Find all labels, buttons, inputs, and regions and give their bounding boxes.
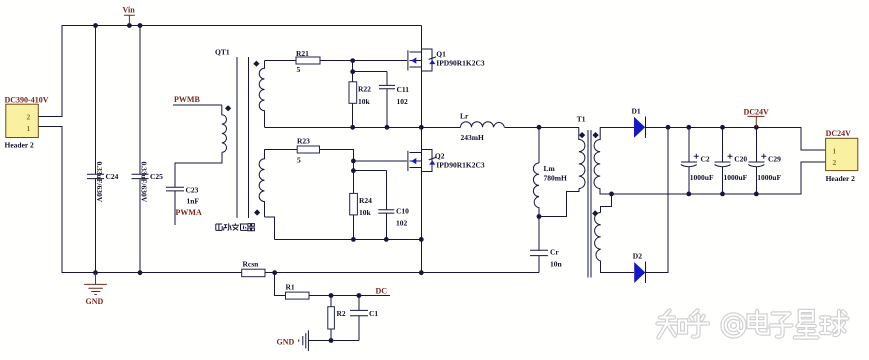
wire: PWMB net stub to QT1 primary [173,104,222,106]
svg-text:R23: R23 [297,137,310,146]
svg-text:1000uF: 1000uF [690,173,714,182]
wire: Lm top connection / Cr series leg [538,127,540,272]
wire: R2 branch [330,296,332,341]
svg-text:C24: C24 [106,172,119,181]
svg-text:1000uF: 1000uF [757,173,781,182]
junction: gnd rail / C29 [754,192,759,197]
svg-text:PWMA: PWMA [176,208,202,217]
wire: C2 branch [688,127,690,194]
svg-text:102: 102 [396,219,408,228]
wire: C25 branch across bus [139,26,141,273]
resistor Rcsn (current sense) [242,260,265,277]
wire: C20 branch [722,127,724,194]
wire: R24 bottom to Q2 source row [352,215,354,240]
capacitor C1 [350,309,378,318]
QT1 primary winding [222,105,227,152]
wire: QT1 primary bottom to C23 and PWMA stub [175,152,222,225]
junction: Q2 source row / C10 [384,237,389,242]
svg-text:10k: 10k [358,97,371,106]
diode D2 (output rectifier) [633,252,646,284]
junction: R1 out / C1 [357,293,362,298]
wire: half-bridge mid node row (QT1 sec return / Q1 source / to Lr) [265,126,579,128]
wire: bottom GND return under R2/C1 [308,340,359,342]
wire: R22 bottom to source row [352,103,354,127]
svg-text:1000uF: 1000uF [724,173,748,182]
svg-text:Header 2: Header 2 [5,141,34,150]
QT1 bottom secondary polarity dot [254,209,260,215]
svg-text:R24: R24 [359,196,372,205]
svg-text:Q2: Q2 [435,152,445,161]
svg-text:C10: C10 [396,207,409,216]
ground GND (signal, rotated) [277,330,309,351]
resistor R21 value 5 [296,49,320,74]
capacitor C24 0.33uF/630V [87,162,119,203]
svg-text:DC390-410V: DC390-410V [5,96,49,105]
junction: Q2 source row / channel [419,237,424,242]
QT1 core [237,57,249,218]
wire: center tap step down to bottom secondary [601,194,612,213]
junction: R2 bottom / GND wire [329,338,334,343]
svg-text:R1: R1 [286,283,295,292]
wire: secondary center tap to output ground rail into header pin2 [600,162,825,194]
capacitor C11 102 [379,85,409,106]
svg-text:DC24V: DC24V [744,108,770,117]
resistor R24 10k [350,193,372,217]
connector J2 (output Header 2, DC24V) [826,129,858,183]
junction: Q2 source row / R24 [351,237,356,242]
svg-text:IPD90R1K2C3: IPD90R1K2C3 [436,161,485,170]
wire: D1 cathode to +24V rail into header pin1 [646,127,826,150]
svg-text:C25: C25 [150,172,163,181]
transistor Q1 IPD90R1K2C3 (N-MOSFET) [408,26,485,128]
junction: +24V rail / C20 [720,125,725,130]
svg-text:0.33uF/630V: 0.33uF/630V [95,162,104,203]
svg-text:0.33uF/630V: 0.33uF/630V [140,162,149,203]
svg-text:C11: C11 [397,85,410,94]
wire: R21 to Q1 gate [320,60,407,62]
T1 top secondary polarity dot [592,132,598,138]
svg-text:Rcsn: Rcsn [243,260,260,269]
wire: C29 branch [755,127,757,194]
svg-text:D1: D1 [632,107,641,116]
svg-text:R2: R2 [337,309,346,318]
junction: +24V rail / C2 [686,125,691,130]
watermark "zhihu @dianzixingqiu" (drawn strokes) [658,311,848,338]
wire: C1 branch [358,296,360,341]
junction: Q2 gate tap row [351,168,356,173]
junction: half-bridge mid node [419,125,424,130]
svg-text:C29: C29 [768,155,781,164]
T1 bottom secondary polarity dot [592,210,598,216]
diode D1 (output rectifier) [632,107,646,139]
junction: bottom rail / Q2 source [419,270,424,275]
svg-text:GND: GND [277,338,295,347]
junction: gnd rail / C2 [686,192,691,197]
svg-text:Lm: Lm [544,164,556,173]
junction: source row / R22 [350,125,355,130]
wire: R23 to Q2 gate with step [320,149,408,161]
wire: T1 bottom secondary to D2 anode [601,261,635,273]
svg-text:Cr: Cr [550,248,559,257]
QT1 primary polarity dot [225,105,231,111]
svg-text:5: 5 [297,65,301,74]
junction: gnd rail / C20 [720,192,725,197]
QT1 top secondary polarity dot [253,61,259,67]
svg-text:102: 102 [397,97,409,106]
connector J1 (input Header 2, DC390-410V) [5,96,49,150]
Q1 body diode [429,60,435,64]
wire: Rcsn sense tap down to R1 [275,273,286,296]
wire: header pin2 up to top HV rail, rail to Q1 drain [38,26,421,117]
resistor R22 10k [349,82,371,106]
capacitor C10 102 [378,207,409,228]
wire: C24 branch across bus [95,26,97,273]
power port Vin [123,6,136,26]
resistor R2 [328,307,346,329]
transformer T1 (main) [577,115,601,278]
svg-text:5: 5 [297,156,301,165]
junction: +24V rail / C29 / DC24V port [754,125,759,130]
junction: Rcsn tap [272,270,277,275]
ground GND (primary return) [84,273,107,306]
svg-text:Vin: Vin [123,6,136,15]
svg-text:10n: 10n [550,260,563,269]
svg-text:R22: R22 [358,85,371,94]
junction: Lm bottom / T1 primary return [537,214,542,219]
svg-text:PWMB: PWMB [174,95,200,104]
capacitor C25 0.33uF/630V [132,162,164,203]
wire: D2 cathode up the rectifier bus to +24V rail [646,127,668,272]
svg-text:Header 2: Header 2 [826,174,855,183]
svg-text:780mH: 780mH [544,174,567,183]
svg-text:D2: D2 [633,252,642,261]
svg-text:2: 2 [833,158,837,167]
svg-text:DC: DC [376,287,388,296]
svg-text:QT1: QT1 [215,48,230,57]
wire: Q2 gate node tap to R24/C10 [353,161,386,210]
wire: header pin1 down to bottom return rail (left of Rcsn) [38,127,241,273]
junction: Q2 gate node [351,159,356,164]
wire: R1 to DC net stub [309,295,390,297]
junction: top rail / Vin [127,23,132,28]
svg-text:C2: C2 [701,155,710,164]
junction: Q1 gate tap row [350,69,355,74]
capacitor C20 1000uF (polarized) [715,154,748,182]
junction: secondary center tap [609,192,614,197]
resistor R1 [286,283,310,300]
svg-text:T1: T1 [577,115,586,124]
junction: Lm top [537,125,542,130]
svg-text:Q1: Q1 [436,50,446,59]
wire: Q1 gate node tap down to R22/C11 row [353,61,387,86]
inductor Lm 780mH (magnetizing) [533,163,567,208]
T1 primary polarity dot [579,132,585,138]
Q2 body diode [429,161,435,165]
wire: C11 bottom to source row [386,89,388,127]
capacitor C23 1nF [166,186,199,206]
junction: top rail / C25 [138,23,143,28]
svg-text:2: 2 [27,113,31,122]
junction: Q1 gate node [350,58,355,63]
transformer QT1 (gate drive transformer) [215,48,265,231]
transistor Q2 IPD90R1K2C3 (N-MOSFET) [408,149,485,171]
capacitor C29 1000uF (polarized) [748,154,781,182]
wire: T1 top secondary to D1 anode [600,126,634,128]
wire: T1 primary return step to Lm/Cr node [539,189,579,217]
junction: bottom rail / C24 / GND [93,270,98,275]
wire: Q2 source row to QT1 bottom winding return [265,217,422,240]
svg-text:10k: 10k [359,208,372,217]
wire: QT1 bottom secondary to R23 [265,148,298,150]
svg-text:IPD90R1K2C3: IPD90R1K2C3 [436,59,485,68]
svg-text:GND: GND [86,297,104,306]
svg-text:C1: C1 [369,309,378,318]
svg-text:C20: C20 [734,155,747,164]
wire: Q2 drain-source channel [420,127,422,272]
junction: R1 out / R2 [329,293,334,298]
junction: top rail / C24 [93,23,98,28]
svg-text:C23: C23 [186,186,199,195]
svg-text:DC24V: DC24V [826,129,852,138]
wire: bottom return rail from Rcsn to Cr [265,272,539,274]
wire: C10 bottom to Q2 source row [385,213,387,239]
wire: QT1 top secondary to R21 [265,60,297,62]
svg-text:Lr: Lr [460,112,469,121]
junction: source row / C11 [385,125,390,130]
svg-text:1: 1 [833,147,837,156]
svg-text:243mH: 243mH [461,133,484,142]
T1 top secondary winding [594,127,600,188]
QT1 bottom secondary winding [259,149,264,217]
inductor Lr 243mH (resonant) [460,112,504,143]
svg-text:1nF: 1nF [187,197,200,206]
junction: bottom rail / C25 [138,270,143,275]
junction: +24V rail / rectifier bus [666,125,671,130]
capacitor C2 1000uF (polarized) [681,154,714,182]
T1 core [588,130,591,278]
T1 primary winding [579,127,585,188]
resistor R23 value 5 [297,137,320,165]
power port DC24V [744,108,770,128]
QT1 top secondary winding [259,61,264,128]
T1 bottom secondary winding [595,213,601,262]
capacitor Cr 10n (resonant) [530,248,563,269]
QT1 comment label "drive transformer" (Chinese, drawn strokes) [216,223,255,230]
svg-text:1: 1 [27,124,31,133]
